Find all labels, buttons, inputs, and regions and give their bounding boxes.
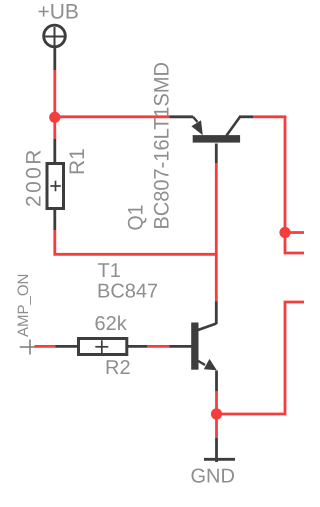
svg-text:BC847: BC847 <box>97 281 158 303</box>
R2 right pin <box>128 345 147 348</box>
wire AMP_ON to R2 <box>35 345 56 348</box>
svg-text:200R: 200R <box>23 147 46 207</box>
wire Q1 base to T1 collector <box>215 163 218 302</box>
wire +UB node to Q1 emitter <box>55 115 170 118</box>
transistor T1 base bar <box>191 323 198 370</box>
T1 emitter pin vertical <box>215 371 218 392</box>
svg-text:T1: T1 <box>98 260 121 282</box>
svg-text:R2: R2 <box>105 357 131 379</box>
svg-text:+UB: +UB <box>38 1 79 24</box>
svg-text:62k: 62k <box>95 313 128 335</box>
R1 top pin <box>53 139 56 162</box>
T1 base pin horizontal <box>170 345 192 348</box>
net port cross AMP_ON <box>20 340 36 355</box>
transistor Q1 base bar <box>193 135 240 143</box>
R1 bottom pin <box>53 210 56 231</box>
T1 collector pin vertical and diagonal <box>198 302 216 331</box>
junction dot right node <box>279 227 290 238</box>
junction dot GND node <box>211 408 222 419</box>
svg-text:R1: R1 <box>66 148 89 175</box>
R1 polarity plus mark <box>50 181 61 192</box>
wire R2 to T1 base <box>147 345 170 348</box>
ground symbol bar <box>204 458 235 461</box>
svg-text:Q1: Q1 <box>125 205 148 231</box>
Q1 base pin vertical <box>215 144 218 164</box>
junction dot +UB node <box>49 112 60 123</box>
wire +UB node down to R1 <box>53 118 56 140</box>
pin wire from +UB symbol <box>53 48 56 71</box>
Q1 emitter diagonal with PNP arrow <box>191 117 202 135</box>
Q1 collector pin horizontal <box>239 115 253 118</box>
Q1 emitter pin horizontal <box>170 115 194 118</box>
wire stub right from junction <box>285 231 304 234</box>
wire Q1 collector to right edge corner <box>253 117 285 233</box>
svg-text:BC807-16LT1SMD: BC807-16LT1SMD <box>151 62 174 230</box>
svg-text:AMP_ON: AMP_ON <box>15 274 32 337</box>
wire T1 emitter to GND node <box>215 391 218 414</box>
resistor R2 body <box>79 339 127 355</box>
wire R1 to Q1 base net (down and right) <box>55 230 217 254</box>
resistor R1 body <box>47 164 64 209</box>
wire GND node down <box>215 414 218 438</box>
power symbol +UB <box>44 25 66 47</box>
R2 polarity plus mark <box>95 340 108 353</box>
wire +UB net vertical <box>53 70 56 118</box>
Q1 collector diagonal <box>227 117 241 136</box>
R2 left pin <box>56 345 79 348</box>
wire from junction down then right off edge <box>285 233 304 254</box>
T1 emitter diagonal with NPN arrow <box>198 359 217 370</box>
wire GND node right and up to right edge <box>217 302 305 414</box>
GND pin vertical <box>215 438 218 462</box>
svg-text:GND: GND <box>191 466 235 488</box>
